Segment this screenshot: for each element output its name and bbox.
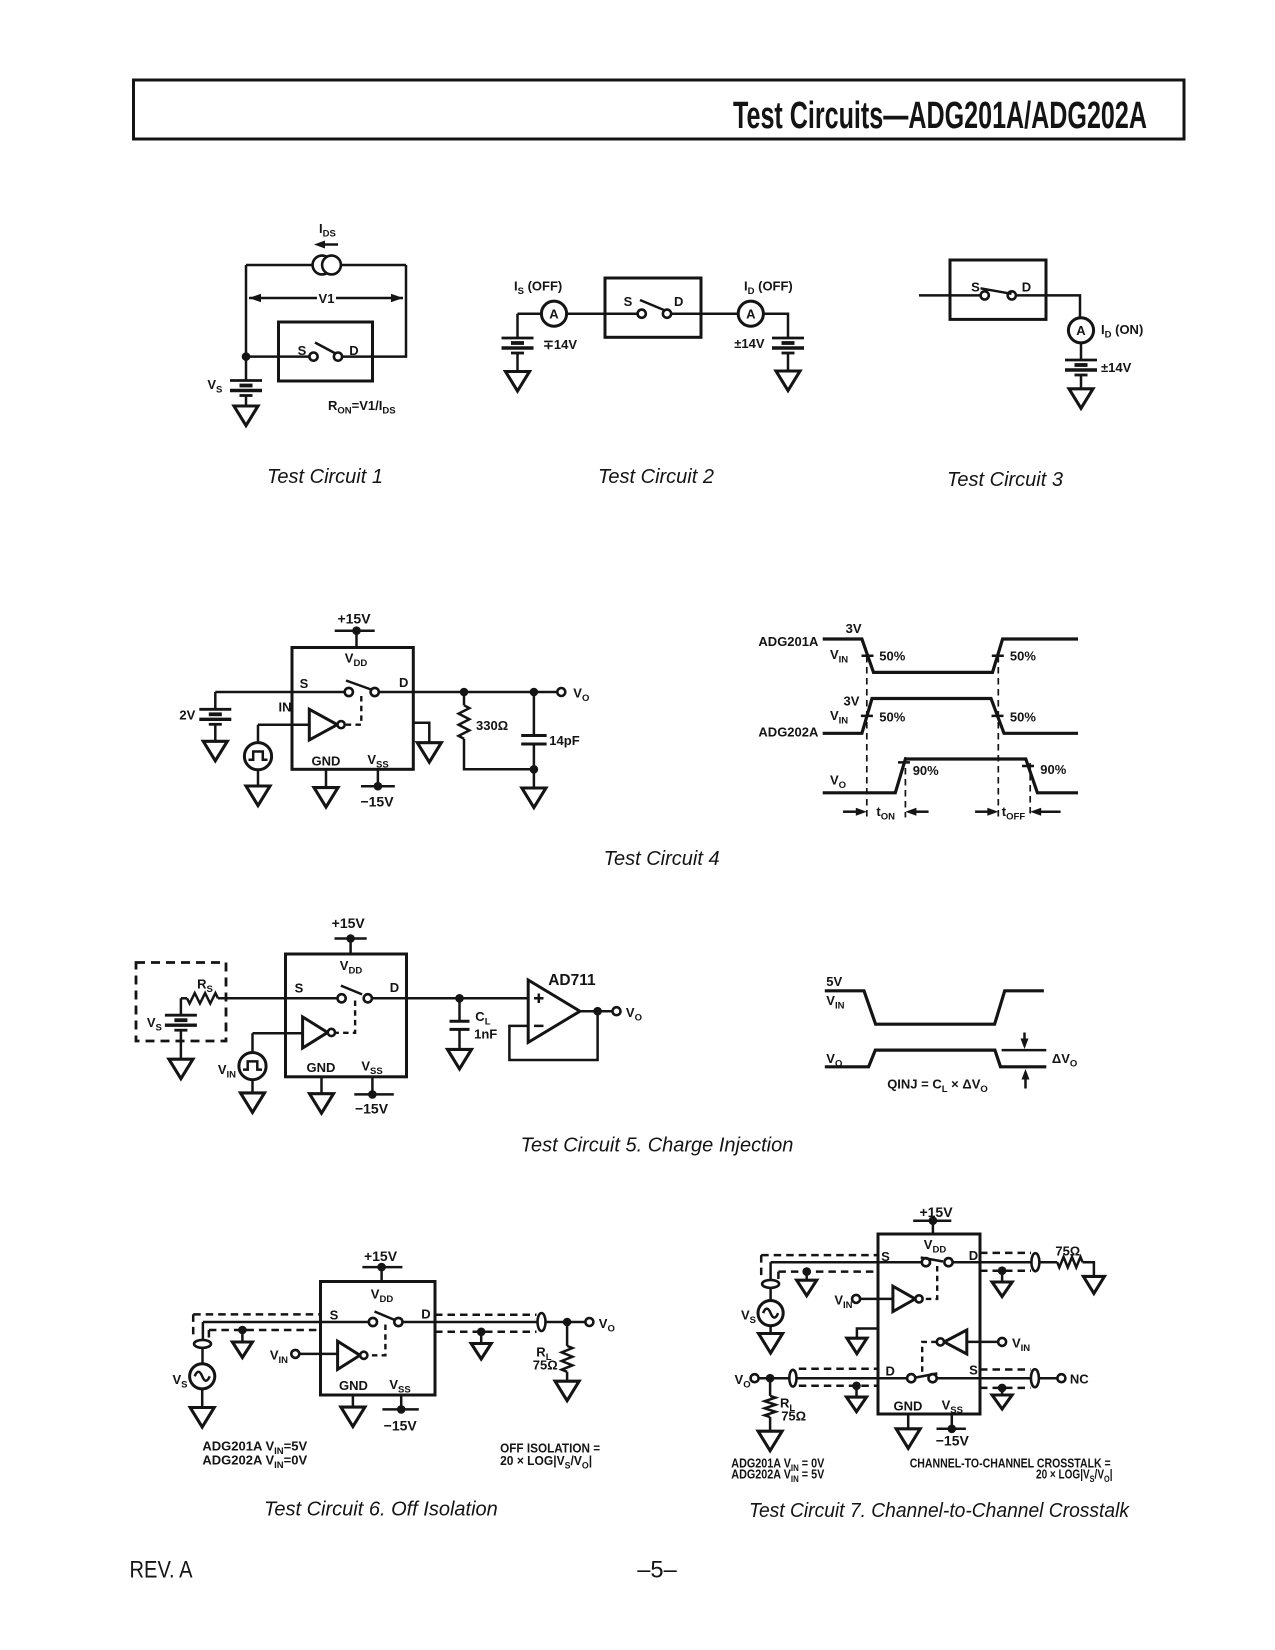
svg-text:Test Circuit 5. Charge Inject: Test Circuit 5. Charge Injection [521, 1135, 794, 1157]
wire: shield gnd (top right) [1001, 1271, 1004, 1282]
svg-text:90%: 90% [913, 763, 939, 778]
wire: S out (bottom) [937, 1377, 1031, 1380]
svg-text:Test Circuit 4: Test Circuit 4 [604, 848, 720, 870]
svg-text:D: D [349, 343, 358, 358]
battery 2V [199, 709, 231, 724]
inverter driver TC6 [338, 1341, 368, 1369]
wire: battery to ground TC1 [245, 396, 248, 407]
ground [417, 743, 441, 763]
dimension arrows V1 [249, 297, 403, 300]
wire: +15V to box TC5 [349, 939, 352, 955]
terminal VO [557, 688, 565, 696]
svg-text:ADG202A: ADG202A [758, 725, 819, 740]
svg-text:S: S [298, 343, 307, 358]
wire: RS to op-amp input [218, 997, 338, 1000]
svg-text:D: D [399, 675, 408, 690]
wire: RL to ground (TC7) [769, 1417, 772, 1431]
ground [234, 406, 258, 426]
svg-text:90%: 90% [1040, 762, 1066, 777]
wire: VIN to inverter [253, 1032, 303, 1035]
wire: battery to ground (right) [787, 353, 790, 371]
wire: +15V to box TC4 [355, 631, 358, 648]
terminal VIN (left) [852, 1295, 860, 1303]
coax cable end (VS) [762, 1280, 779, 1288]
waveform ADG201A VIN [823, 639, 1078, 672]
svg-text:75Ω: 75Ω [781, 1409, 806, 1424]
shield ground node (bottom left) [852, 1382, 861, 1391]
wire: GND pin [325, 769, 328, 787]
power rail -15V TC6 [382, 1408, 418, 1411]
coax shield dashed (left) [193, 1314, 320, 1338]
switch SW3 lever (closed) [981, 288, 1012, 294]
svg-text:14pF: 14pF [549, 733, 579, 748]
wire: capacitor bottom to ground [533, 744, 536, 788]
terminal VIN [291, 1350, 299, 1358]
op-amp AD711 [528, 980, 580, 1042]
coax shield dashed (bottom right) [980, 1370, 1031, 1388]
terminal VIN (right) [998, 1338, 1006, 1346]
svg-text:GND: GND [894, 1399, 923, 1414]
node RL (TC7) [766, 1374, 775, 1383]
wire: pulse to ground [251, 1080, 254, 1093]
capacitor CL 1nF [450, 1020, 470, 1023]
resistor 75ohm (TC7 top) [1057, 1257, 1082, 1267]
dashed control (top switch) [923, 1266, 938, 1299]
reference line delta top [1002, 1049, 1047, 1052]
switch SW7B contacts [907, 1374, 915, 1382]
wire: VS battery to ground [180, 1030, 183, 1059]
90% tick marks wf3 [898, 762, 1034, 766]
svg-text:Test Circuit 3: Test Circuit 3 [947, 469, 1063, 491]
svg-text:Test Circuit 2: Test Circuit 2 [598, 466, 714, 488]
svg-text:D: D [421, 1307, 430, 1322]
svg-text:1nF: 1nF [474, 1027, 497, 1042]
svg-text:50%: 50% [879, 649, 905, 664]
svg-text:Test Circuit 1: Test Circuit 1 [267, 466, 383, 488]
dashed timing guides [867, 656, 1030, 818]
terminal VO [585, 1318, 593, 1326]
delta VO arrows [1023, 1033, 1026, 1046]
svg-text:±14V: ±14V [1101, 360, 1132, 375]
wire: op-amp output [580, 1010, 613, 1013]
svg-text:5V: 5V [826, 974, 842, 989]
ground [203, 741, 227, 761]
wire: right vertical TC1 [342, 265, 406, 357]
switch box (DUT) TC7 [878, 1234, 980, 1414]
battery +-14V (right) [772, 338, 804, 353]
wire: VIN to inverter A [860, 1298, 893, 1301]
ground [847, 1397, 867, 1412]
ground [232, 1342, 252, 1358]
wire: coax core to S TC6 [203, 1321, 369, 1324]
wire: VS to ground [201, 1389, 204, 1408]
svg-text:S: S [969, 1363, 978, 1378]
wire: coax core vertical left [202, 1322, 205, 1340]
wire: VSS pin TC6 [400, 1395, 403, 1409]
shield ground node (VS) [802, 1267, 811, 1276]
coax cable end (right) [538, 1313, 546, 1331]
svg-text:+15V: +15V [364, 1248, 398, 1264]
resistor 330ohm [459, 705, 470, 738]
coax cable end (left) [194, 1340, 211, 1348]
wire: D output TC4 [379, 691, 558, 694]
resistor RL 75ohm (TC6) [562, 1346, 573, 1372]
svg-text:GND: GND [307, 1060, 336, 1075]
pulse source VIN (TC5) [239, 1053, 266, 1080]
switch SW2 lever [640, 300, 664, 310]
svg-text:D: D [969, 1248, 978, 1263]
dashed control line TC5 [335, 1001, 355, 1033]
svg-text:A: A [549, 307, 559, 322]
wire: shield gnd (VS) [805, 1272, 808, 1281]
waveform ADG202A VIN [823, 699, 1078, 734]
wire: input TC3 [919, 294, 981, 297]
wire: cable to VS [201, 1348, 204, 1364]
wire: pulse source up TC4 [257, 725, 260, 743]
power rail +15V TC7 [913, 1219, 951, 1222]
wire: battery to ground TC3 [1080, 375, 1083, 389]
wire: shield gnd (bottom left) [855, 1386, 858, 1397]
ground [797, 1280, 817, 1296]
waveform VO TC5 [825, 1050, 1047, 1067]
ground [896, 1429, 920, 1449]
svg-text:REV. A: REV. A [130, 1556, 193, 1583]
svg-text:–5–: –5– [637, 1556, 677, 1583]
ammeter A (drain side) [738, 301, 763, 326]
node CL [455, 994, 464, 1003]
switch SW5 contacts [338, 994, 346, 1002]
node output [593, 1007, 602, 1016]
wire: ammeter to battery TC2 [763, 314, 788, 338]
wire: VIN to inverter TC6 [299, 1353, 337, 1356]
svg-text:GND: GND [339, 1378, 368, 1393]
battery VS (TC5) [165, 1015, 197, 1030]
power rail -15V TC7 [937, 1428, 966, 1431]
wire: +15V to box TC6 [380, 1267, 383, 1281]
wire: VS to ground [769, 1326, 772, 1334]
svg-text:V1: V1 [319, 291, 335, 306]
switch box (DUT) TC4 [292, 648, 413, 770]
svg-text:AD711: AD711 [548, 972, 596, 989]
switch SW7A contacts [922, 1258, 930, 1266]
ground [992, 1395, 1012, 1409]
switch SW6 lever [375, 1312, 397, 1321]
wire: pulse source stem [251, 1033, 254, 1052]
terminal VO [613, 1007, 621, 1015]
switch SW7B lever (closed) [915, 1373, 937, 1377]
svg-text:D: D [390, 980, 399, 995]
svg-text:−15V: −15V [355, 1101, 389, 1117]
power rail +15V TC5 [335, 937, 367, 940]
wire: RL top lead [566, 1322, 569, 1346]
switch SW4 lever [346, 681, 373, 691]
power rail +15V TC6 [362, 1266, 402, 1269]
svg-text:S: S [295, 981, 304, 996]
node junction TC1 [242, 352, 251, 361]
coax shield dashed (top right) [980, 1253, 1031, 1271]
wire: battery to ground (left) [516, 353, 519, 372]
ground [314, 788, 338, 808]
svg-text:±14V: ±14V [734, 336, 765, 351]
wire: box right ground stub [413, 723, 429, 743]
ground [992, 1282, 1012, 1297]
switch SW5 lever [341, 986, 362, 995]
svg-text:−15V: −15V [384, 1418, 418, 1434]
wire: CL to ground [458, 1029, 461, 1049]
ground [471, 1344, 491, 1360]
ground [169, 1059, 193, 1079]
wire: shield to ground (right) [480, 1332, 483, 1344]
wire: VSS pin TC7 [951, 1414, 954, 1429]
waveform VIN TC5 [825, 991, 1044, 1024]
ground [1069, 389, 1093, 409]
wire: D to right ammeter TC2 [671, 312, 738, 315]
wire: pulse to ground [257, 770, 260, 786]
svg-text:+15V: +15V [337, 611, 371, 627]
wire: GND pin TC6 [352, 1395, 355, 1407]
switch SW6 contacts [369, 1318, 377, 1326]
wire: cable to VS source [769, 1288, 772, 1302]
current source I_DS [313, 256, 341, 275]
wire: coax core vertical (VS) [769, 1262, 772, 1280]
svg-text:ADG201A: ADG201A [758, 634, 819, 649]
node D output [460, 688, 469, 697]
svg-text:−15V: −15V [360, 794, 394, 810]
svg-text:NC: NC [1070, 1372, 1089, 1387]
switch box TC2 [605, 278, 701, 337]
ground [759, 1334, 783, 1354]
dashed source box TC5 [136, 963, 226, 1042]
power rail -15V TC4 [361, 785, 395, 788]
power rail -15V TC5 [354, 1093, 394, 1096]
inverter driver TC5 [303, 1017, 335, 1048]
switch box (DUT) TC6 [321, 1282, 436, 1396]
pulse source VIN (TC4) [244, 743, 271, 770]
wire: 2V source to S TC4 [215, 691, 344, 694]
svg-text:+15V: +15V [919, 1204, 953, 1220]
coax cable end (bottom left) [789, 1370, 796, 1387]
battery VS (TC1) [230, 381, 262, 396]
node RL [563, 1318, 572, 1327]
ground [555, 1381, 579, 1401]
switch SW7A lever (closed) [921, 1258, 943, 1262]
svg-text:D: D [1022, 280, 1031, 295]
wire: left vertical TC1 [245, 265, 248, 381]
switch SW3 contacts [981, 291, 989, 299]
ground [1083, 1276, 1104, 1293]
ground [190, 1408, 214, 1428]
node at capacitor [530, 688, 539, 697]
wire: feedback loop [509, 1011, 597, 1060]
inverter driver A (TC7) [893, 1286, 923, 1311]
wire: ammeter to battery TC3 [1080, 343, 1083, 360]
wire: D out (top) [953, 1261, 1032, 1264]
svg-text:IN: IN [279, 700, 292, 715]
resistor RS [187, 993, 218, 1003]
coax shield dashed (bottom left) [799, 1369, 878, 1386]
battery -+14V (left) [502, 338, 534, 353]
coax shield dashed (right) [435, 1315, 537, 1332]
svg-text:75Ω: 75Ω [1055, 1244, 1080, 1259]
ground [310, 1094, 334, 1114]
wire: left branch TC2 [518, 312, 542, 315]
ground [246, 786, 270, 806]
switch SW2 contacts [638, 310, 646, 318]
svg-text:50%: 50% [1010, 710, 1036, 725]
resistor RL 75ohm (TC7) [765, 1396, 776, 1417]
svg-text:S: S [971, 280, 980, 295]
wire: 2V battery to ground [214, 724, 217, 741]
wire: left vertical TC2 [516, 314, 519, 338]
wire: GND pin TC5 [320, 1077, 323, 1094]
switch box TC1 [279, 322, 373, 381]
wire: VSS pin TC5 [371, 1077, 374, 1095]
ground [341, 1407, 365, 1427]
coax cable end (top right) [1031, 1253, 1039, 1271]
svg-text:S: S [300, 676, 309, 691]
wire: 2V battery drop [214, 692, 217, 709]
wire: resistor bottom to node [464, 739, 534, 770]
wire: capacitor top lead [533, 692, 536, 736]
ground [448, 1049, 472, 1069]
wire: to 75ohm [1039, 1261, 1057, 1264]
dashed control line TC4 [345, 696, 361, 725]
coax shield dashed (left VS) [761, 1255, 878, 1279]
svg-text:A: A [1076, 323, 1086, 338]
battery +-14V (TC3) [1065, 360, 1097, 375]
waveform VO [823, 759, 1078, 793]
svg-text:A: A [746, 307, 756, 322]
wire: to NC [1039, 1377, 1057, 1380]
50% tick marks wf2 [861, 715, 1004, 718]
coax cable end (bottom right) [1031, 1369, 1039, 1387]
wire: 75ohm to ground [1083, 1262, 1094, 1276]
svg-text:D: D [674, 294, 683, 309]
inverter driver TC4 [309, 709, 344, 740]
wire: VIN right to inverter B [967, 1341, 998, 1344]
svg-text:Test Circuits—ADG201A/ADG202A: Test Circuits—ADG201A/ADG202A [733, 95, 1147, 137]
switch SW1 lever [315, 343, 336, 354]
wire: shield gnd (bottom right) [1001, 1388, 1004, 1395]
wire: IN to inverter [258, 723, 309, 726]
wire: CL top lead [458, 998, 461, 1021]
inverter driver B (TC7) [937, 1330, 967, 1354]
svg-text:Test Circuit 6. Off Isolation: Test Circuit 6. Off Isolation [264, 1499, 498, 1521]
shield ground node (right) [477, 1328, 486, 1337]
wire: VO to D (bottom) [758, 1377, 907, 1380]
ground [506, 372, 530, 392]
wire: shield to ground (left) [241, 1330, 244, 1342]
dashed control line TC6 [369, 1325, 385, 1356]
wire: D out and down TC3 [1016, 295, 1080, 317]
switch SW4 contacts [345, 688, 353, 696]
svg-text:75Ω: 75Ω [533, 1358, 558, 1373]
shield ground node (left) [238, 1326, 247, 1335]
terminal VO (TC7) [751, 1374, 759, 1382]
wire: RL to ground [566, 1372, 569, 1381]
svg-text:50%: 50% [1010, 649, 1036, 664]
svg-text:D: D [886, 1364, 895, 1379]
sine source VS (TC6) [190, 1364, 215, 1389]
wire: top loop TC1 [246, 264, 406, 267]
wire: RL top lead (TC7) [769, 1378, 772, 1396]
ammeter A (source side) [541, 301, 566, 326]
wire: VS to resistor [181, 997, 187, 1000]
wire: GND pin TC7 [907, 1414, 910, 1429]
svg-text:S: S [330, 1308, 339, 1323]
tON arrows [843, 810, 858, 813]
capacitor 14pF [521, 734, 546, 737]
wire: battery VS drop [180, 998, 183, 1015]
svg-text:S: S [624, 294, 633, 309]
wire: +15V to box TC7 [932, 1221, 935, 1234]
wire: coax core to S (top) [771, 1261, 922, 1264]
arrow I_DS direction [323, 243, 338, 246]
ground [776, 371, 800, 391]
ground [847, 1338, 867, 1354]
svg-text:330Ω: 330Ω [476, 718, 508, 733]
switch box TC3 [950, 260, 1046, 319]
svg-text:3V: 3V [844, 694, 860, 709]
wire: ammeter to box TC2 [567, 312, 638, 315]
wire: D to op-amp TC5 [372, 997, 528, 1000]
wire: S-side TC1 [246, 355, 310, 358]
shield ground node (top right) [998, 1266, 1007, 1275]
ammeter A (ID on) [1068, 318, 1093, 343]
wire: left ground stub TC7 [857, 1329, 878, 1339]
ground [241, 1093, 265, 1113]
svg-text:∓14V: ∓14V [543, 337, 577, 352]
power rail +15V TC4 [335, 629, 375, 632]
svg-text:GND: GND [312, 753, 341, 768]
wire: VSS pin [377, 769, 380, 786]
switch box (DUT) TC5 [286, 954, 407, 1077]
50% tick marks wf1 [862, 654, 1004, 657]
header box [134, 80, 1185, 139]
svg-text:2V: 2V [179, 707, 195, 722]
shield ground node (bottom right) [998, 1384, 1007, 1393]
svg-text:50%: 50% [879, 710, 905, 725]
svg-text:+15V: +15V [332, 915, 366, 931]
ground [758, 1431, 782, 1451]
wire: resistor top lead [463, 692, 466, 705]
switch SW1 contacts [309, 353, 317, 361]
svg-text:−15V: −15V [936, 1433, 970, 1449]
tOFF arrows [975, 810, 989, 813]
dashed control (bottom switch) [922, 1342, 937, 1374]
ground [522, 788, 546, 808]
sine source VS (TC7) [758, 1301, 783, 1326]
svg-text:3V: 3V [846, 621, 862, 636]
wire: D output TC6 [403, 1321, 586, 1324]
svg-text:Test Circuit 7. Channel-to-Ch: Test Circuit 7. Channel-to-Channel Cross… [749, 1500, 1130, 1522]
terminal NC [1057, 1374, 1065, 1382]
